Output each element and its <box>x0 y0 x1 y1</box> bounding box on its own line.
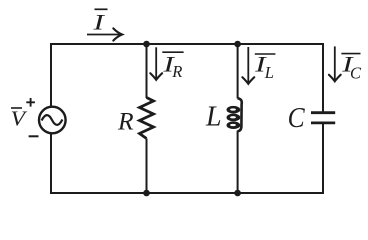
wire: left vertical below source <box>50 133 52 194</box>
svg-text:V: V <box>11 107 28 131</box>
svg-text:L: L <box>264 63 274 82</box>
annotation: inductor current I_L arrow (downward) <box>242 47 254 84</box>
label: I_C current <box>341 52 362 83</box>
node: top junction at inductor branch <box>234 41 241 48</box>
inductor L: loop 2 <box>227 114 241 122</box>
inductor L: right strand with top and bottom hooks <box>238 98 242 131</box>
wire: right vertical below capacitor <box>322 124 324 194</box>
capacitor C: bottom plate <box>311 122 335 125</box>
svg-text:C: C <box>350 64 362 83</box>
wire: inductor branch bottom <box>237 131 239 194</box>
capacitor C: top plate <box>311 111 335 114</box>
wire: resistor branch bottom <box>146 139 148 194</box>
wire: top horizontal net (V+ to C top) <box>51 43 323 45</box>
svg-text:C: C <box>288 102 306 134</box>
wire: right vertical above capacitor <box>322 43 324 112</box>
source V: AC voltage source circle <box>39 107 66 134</box>
label: I_L current <box>254 52 275 82</box>
svg-text:I: I <box>92 10 105 35</box>
source V: minus polarity mark <box>29 135 39 137</box>
svg-text:R: R <box>117 107 134 136</box>
label: I_R current <box>162 52 183 81</box>
wire: left vertical above source <box>50 43 52 107</box>
source V: sine waveform <box>42 115 63 125</box>
label: overbar of V <box>11 107 22 109</box>
svg-text:L: L <box>205 102 222 133</box>
wire: resistor branch top <box>146 44 148 98</box>
node: top junction at resistor branch <box>143 41 150 48</box>
annotation: resistor current I_R arrow (downward) <box>150 47 162 80</box>
wire: inductor branch top <box>237 44 239 99</box>
inductor L: loop 3 <box>227 121 241 129</box>
resistor R: zigzag body <box>140 98 154 139</box>
label: overbar of I <box>95 8 108 10</box>
inductor L: loop 1 <box>227 106 241 114</box>
annotation: capacitor current I_C arrow (downward) <box>329 46 341 81</box>
svg-text:R: R <box>171 62 182 81</box>
annotation: total current I arrow (rightward) <box>87 28 122 40</box>
source V: plus polarity mark <box>26 98 35 107</box>
node: bottom junction at inductor branch <box>234 190 241 197</box>
node: bottom junction at resistor branch <box>143 190 150 197</box>
wire: bottom horizontal net (ground return) <box>51 192 323 194</box>
